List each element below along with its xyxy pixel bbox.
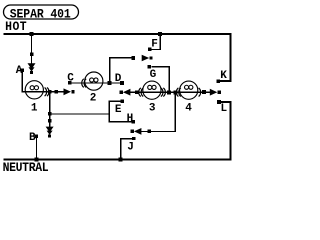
svg-text:1: 1 xyxy=(31,102,38,114)
svg-text:K: K xyxy=(220,70,227,82)
svg-text:G: G xyxy=(150,69,157,81)
svg-text:4: 4 xyxy=(185,103,192,115)
svg-text:F: F xyxy=(151,39,158,51)
svg-text:A: A xyxy=(16,65,23,77)
svg-text:3: 3 xyxy=(149,102,156,114)
svg-text:C: C xyxy=(67,73,74,85)
svg-text:2: 2 xyxy=(90,93,97,105)
svg-text:J: J xyxy=(127,142,134,154)
svg-text:B: B xyxy=(29,132,36,144)
svg-text:D: D xyxy=(115,73,122,85)
svg-text:E: E xyxy=(115,104,122,116)
svg-text:NEUTRAL: NEUTRAL xyxy=(3,160,49,175)
svg-text:H: H xyxy=(127,113,134,125)
svg-text:L: L xyxy=(221,103,228,115)
svg-text:HOT: HOT xyxy=(5,20,27,35)
